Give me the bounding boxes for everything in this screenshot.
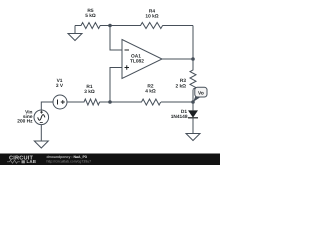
wire (feedback right column from R4 down to output node) — [192, 26, 194, 60]
wire (op-amp output to node) — [162, 58, 193, 60]
svg-text:Vo: Vo — [198, 91, 204, 97]
svg-text:R3: R3 — [180, 78, 186, 84]
op-amp OA1 TL082 — [122, 40, 162, 79]
node J2 (output node) — [191, 57, 195, 61]
label Vin sine 200 Hz — [17, 110, 33, 125]
node J1 (R5/R4/inverting input junction) — [108, 24, 112, 28]
ground GND2 (below Vin) — [34, 141, 48, 148]
label V1 value 3 V — [56, 78, 64, 89]
svg-text:http://circuitlab.com/cg739u7: http://circuitlab.com/cg739u7 — [47, 159, 92, 163]
wire (Vin bottom to ground) — [40, 125, 42, 142]
svg-text:4 kΩ: 4 kΩ — [145, 89, 156, 95]
wire (inverting input: from junction J1 down and into op-amp) — [110, 26, 122, 51]
resistor R2 — [110, 99, 193, 105]
svg-text:1N4148: 1N4148 — [171, 114, 188, 120]
diode D1 1N4148 — [188, 102, 198, 134]
label R2 value 4 kΩ — [145, 84, 156, 95]
svg-text:TL082: TL082 — [130, 59, 144, 65]
svg-text:10 kΩ: 10 kΩ — [145, 14, 158, 20]
source Vin sine 200 Hz — [34, 110, 49, 125]
svg-text:2 kΩ: 2 kΩ — [175, 83, 186, 89]
wire (non-inverting input: from op-amp left to bottom node) — [110, 68, 122, 103]
label D1 value 1N4148 — [171, 109, 188, 120]
svg-text:LAB: LAB — [27, 159, 37, 164]
svg-text:3 V: 3 V — [56, 83, 64, 89]
wire (V1 negative to Vin source top) — [41, 102, 53, 111]
resistor R4 — [110, 23, 193, 29]
label R1 value 3 kΩ — [84, 84, 95, 95]
svg-text:dmoandponcy : NaA_P3: dmoandponcy : NaA_P3 — [47, 155, 87, 159]
node J4 (Vo node) — [191, 100, 195, 104]
resistor R5 — [75, 23, 110, 29]
ground GND3 (below D1) — [186, 134, 200, 141]
label R3 value 2 kΩ — [175, 78, 186, 89]
svg-text:200 Hz: 200 Hz — [17, 119, 33, 125]
resistor R3 (vertical) — [190, 59, 196, 102]
label R5 value 5 kΩ — [85, 8, 96, 19]
label R4 value 10 kΩ — [145, 9, 158, 20]
node J3 (R1/R2/non-inverting junction) — [108, 100, 112, 104]
svg-text:5 kΩ: 5 kΩ — [85, 13, 96, 19]
voltage source V1 3 V — [53, 95, 67, 109]
resistor R1 — [67, 99, 110, 105]
watermark bar — [0, 154, 220, 166]
probe Vo — [193, 87, 207, 102]
ground GND1 (top left, for R5) — [68, 26, 82, 41]
svg-text:3 kΩ: 3 kΩ — [84, 89, 95, 95]
